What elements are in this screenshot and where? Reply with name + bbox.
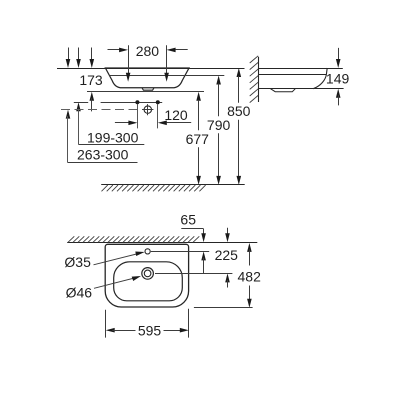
svg-text:173: 173	[79, 72, 103, 88]
svg-text:120: 120	[164, 107, 188, 123]
svg-text:Ø35: Ø35	[64, 254, 91, 270]
svg-text:225: 225	[215, 247, 239, 263]
svg-text:199-300: 199-300	[87, 129, 139, 145]
svg-text:595: 595	[138, 322, 162, 338]
svg-text:280: 280	[136, 43, 160, 59]
svg-text:263-300: 263-300	[77, 146, 129, 162]
svg-text:677: 677	[186, 131, 210, 147]
svg-text:149: 149	[326, 70, 350, 86]
svg-text:850: 850	[227, 103, 251, 119]
svg-text:Ø46: Ø46	[66, 285, 93, 301]
svg-text:65: 65	[180, 211, 196, 227]
svg-text:482: 482	[238, 269, 262, 285]
